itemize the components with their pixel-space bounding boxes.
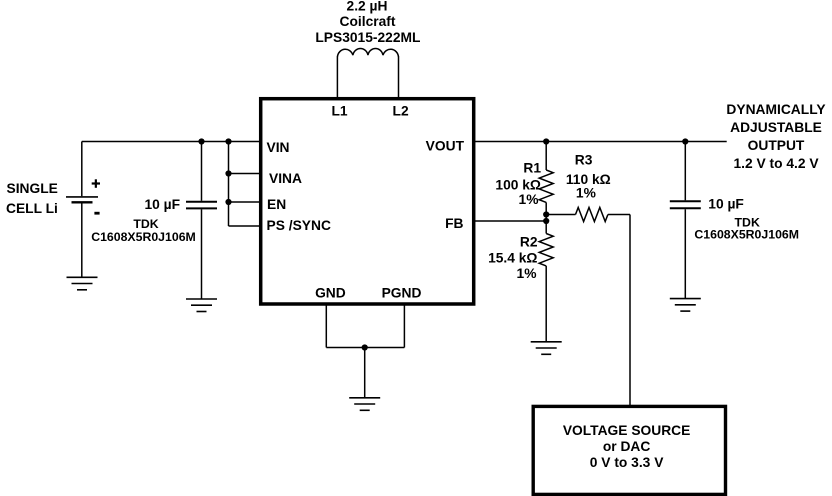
svg-text:1%: 1%	[519, 192, 539, 207]
capacitor C1 10uF top lead	[201, 142, 203, 201]
capacitor C1 plates	[186, 202, 217, 209]
wire FB pin to divider	[474, 220, 546, 222]
svg-text:OUTPUT: OUTPUT	[748, 138, 805, 153]
svg-text:10 µF: 10 µF	[708, 196, 744, 211]
svg-text:1.2 V to 4.2 V: 1.2 V to 4.2 V	[733, 156, 819, 171]
svg-text:EN: EN	[267, 197, 286, 212]
label: battery plus	[92, 179, 100, 188]
resistor R3 110k (horizontal)	[576, 208, 608, 222]
label: SINGLE CELL Li	[6, 181, 58, 216]
svg-text:10 µF: 10 µF	[144, 197, 180, 212]
svg-text:VINA: VINA	[269, 171, 302, 186]
svg-text:ADJUSTABLE: ADJUSTABLE	[730, 120, 822, 135]
battery B1 (single cell Li) plates	[66, 197, 98, 202]
svg-text:GND: GND	[315, 286, 346, 301]
svg-text:or DAC: or DAC	[603, 439, 651, 454]
node: C2 to VOUT rail	[682, 138, 688, 144]
wire vertical bus from VIN rail to PS/SYNC	[228, 142, 230, 227]
wire R3 to voltage source box	[608, 215, 630, 407]
svg-text:FB: FB	[445, 216, 463, 231]
capacitor C2 bottom lead	[684, 209, 686, 298]
capacitor C1 bottom lead	[201, 209, 203, 298]
svg-text:VOLTAGE SOURCE: VOLTAGE SOURCE	[563, 423, 691, 438]
wire R1/R2 node to R3	[546, 214, 575, 216]
resistor R1 100k (vertical)	[539, 142, 553, 222]
wire GND pin down	[325, 305, 327, 348]
svg-text:1%: 1%	[576, 185, 596, 200]
wire VOUT rail (IC to output)	[474, 141, 727, 143]
svg-text:0 V to 3.3 V: 0 V to 3.3 V	[590, 455, 664, 470]
wire bus to PS/SYNC pin	[229, 225, 261, 227]
ground (C1)	[186, 299, 217, 312]
label: battery minus	[94, 212, 99, 215]
svg-text:1%: 1%	[517, 266, 537, 281]
inductor L 2.2uH coil arcs	[337, 48, 398, 56]
svg-text:PS /SYNC: PS /SYNC	[267, 218, 331, 233]
ground (battery)	[67, 277, 98, 290]
svg-text:R2: R2	[520, 234, 538, 249]
node: R1/R3 junction	[543, 211, 549, 217]
svg-text:DYNAMICALLY: DYNAMICALLY	[726, 102, 825, 117]
resistor R2 15.4k (vertical)	[539, 221, 553, 342]
svg-text:15.4 kΩ: 15.4 kΩ	[488, 251, 537, 266]
capacitor C2 10uF top lead	[684, 142, 686, 201]
svg-text:PGND: PGND	[382, 286, 422, 301]
node: bus EN junction	[225, 199, 231, 205]
svg-text:SINGLE: SINGLE	[7, 181, 58, 196]
ground (C2)	[670, 299, 701, 312]
wire battery positive to top rail	[81, 142, 83, 197]
wire bus to VINA pin	[229, 173, 261, 175]
node: bus to VIN rail junction	[225, 138, 231, 144]
wire to system ground	[364, 348, 366, 398]
capacitor C2 plates	[670, 201, 701, 208]
svg-text:2.2 µH: 2.2 µH	[347, 0, 388, 14]
svg-text:R1: R1	[523, 160, 541, 175]
node: FB junction	[543, 218, 549, 224]
voltage source / DAC box	[533, 406, 725, 494]
svg-text:TDK: TDK	[133, 217, 158, 231]
svg-text:R3: R3	[575, 153, 593, 168]
svg-text:VIN: VIN	[267, 140, 290, 155]
svg-text:LPS3015-222ML: LPS3015-222ML	[315, 30, 420, 45]
IC U1 box	[261, 99, 474, 304]
svg-text:L2: L2	[393, 104, 409, 119]
svg-text:C1608X5R0J106M: C1608X5R0J106M	[91, 230, 196, 244]
svg-text:L1: L1	[331, 104, 347, 119]
node: GND/PGND junction	[362, 344, 368, 350]
ground (GND/PGND)	[349, 398, 380, 411]
svg-text:100 kΩ: 100 kΩ	[495, 177, 541, 192]
wire inductor right lead to L2 pin	[398, 57, 400, 98]
ground (R2)	[531, 342, 562, 355]
node: bus VINA junction	[225, 170, 231, 176]
node: R1 top to VOUT rail	[543, 138, 549, 144]
svg-text:CELL Li: CELL Li	[6, 201, 58, 216]
svg-text:VOUT: VOUT	[426, 139, 465, 154]
wire GND-PGND join	[326, 347, 404, 349]
svg-text:C1608X5R0J106M: C1608X5R0J106M	[694, 227, 799, 241]
wire bus to EN pin	[229, 201, 261, 203]
wire inductor left lead to L1 pin	[336, 57, 338, 98]
svg-text:Coilcraft: Coilcraft	[340, 14, 396, 29]
wire battery negative to ground	[81, 203, 83, 278]
node: C1 to VIN rail junction	[198, 138, 204, 144]
wire PGND pin down	[403, 305, 405, 348]
wire top rail VIN (battery to IC VIN pin)	[82, 141, 260, 143]
